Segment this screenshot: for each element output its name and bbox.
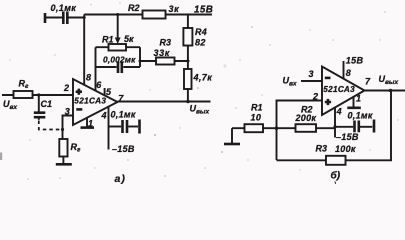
svg-text:С1: С1 xyxy=(41,99,53,109)
svg-text:2: 2 xyxy=(63,83,69,93)
svg-text:0,1мк: 0,1мк xyxy=(348,111,373,121)
svg-text:15В: 15В xyxy=(194,5,213,16)
svg-text:0,002мк: 0,002мк xyxy=(103,55,136,65)
svg-text:200к: 200к xyxy=(295,113,317,123)
svg-text:R3: R3 xyxy=(316,144,328,154)
svg-text:3к: 3к xyxy=(169,4,180,14)
svg-text:0,1мк: 0,1мк xyxy=(51,3,77,13)
svg-text:521СА3: 521СА3 xyxy=(323,85,355,94)
svg-text:3: 3 xyxy=(65,107,70,117)
svg-text:15В: 15В xyxy=(346,55,364,65)
svg-text:3: 3 xyxy=(309,69,314,79)
svg-text:8: 8 xyxy=(86,73,91,83)
svg-text:4,7к: 4,7к xyxy=(193,73,213,83)
svg-text:8: 8 xyxy=(346,68,351,78)
svg-text:100к: 100к xyxy=(335,144,356,154)
svg-text:521СА3: 521СА3 xyxy=(74,96,106,105)
svg-text:–15В: –15В xyxy=(336,132,359,142)
svg-text:б): б) xyxy=(331,170,341,182)
svg-text:R1: R1 xyxy=(251,103,263,113)
svg-text:5к: 5к xyxy=(124,34,134,44)
svg-text:1: 1 xyxy=(356,94,361,104)
svg-text:R4: R4 xyxy=(195,27,207,37)
svg-text:0,1мк: 0,1мк xyxy=(111,110,136,120)
svg-text:4: 4 xyxy=(101,111,107,121)
svg-text:2: 2 xyxy=(312,92,318,102)
svg-text:33к: 33к xyxy=(154,48,170,58)
svg-text:–15В: –15В xyxy=(112,144,135,154)
svg-text:82: 82 xyxy=(195,37,206,47)
svg-text:4: 4 xyxy=(336,107,342,117)
svg-text:10: 10 xyxy=(251,112,262,122)
svg-text:а): а) xyxy=(115,173,126,184)
svg-text:R2: R2 xyxy=(128,3,140,13)
svg-text:R1: R1 xyxy=(102,35,114,45)
svg-text:R3: R3 xyxy=(160,38,172,48)
